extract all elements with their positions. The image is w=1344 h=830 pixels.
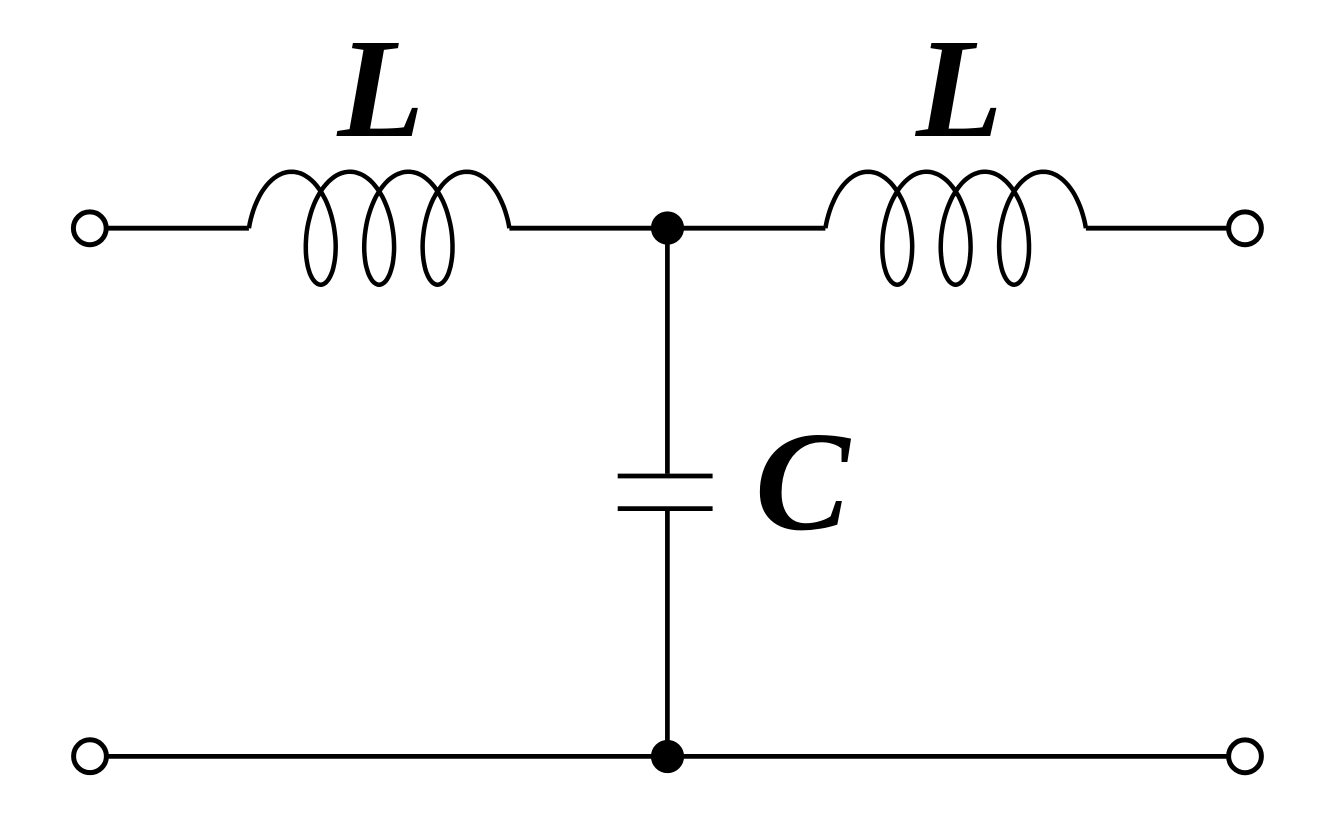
- wire (top-right horizontal): [1086, 226, 1227, 231]
- node junction dot (top): [651, 211, 684, 244]
- capacitor C bottom plate: [618, 506, 713, 511]
- wire (top middle, coil1 to node): [509, 226, 668, 231]
- svg-text:L: L: [336, 9, 425, 167]
- node junction dot (bottom): [651, 740, 684, 773]
- terminal (top-right port): [1229, 212, 1262, 245]
- terminal (top-left port): [73, 212, 106, 245]
- wire (top-left horizontal): [108, 226, 249, 231]
- capacitor C top plate: [618, 474, 713, 479]
- terminal (bottom-left port): [74, 740, 107, 773]
- inductor L (right coil): [825, 172, 1086, 285]
- terminal (bottom-right port): [1229, 740, 1262, 773]
- svg-text:C: C: [755, 402, 852, 560]
- svg-text:L: L: [914, 9, 1003, 167]
- inductor L (left coil): [249, 172, 510, 285]
- wire (bottom rail): [108, 754, 1227, 759]
- wire (capacitor bottom lead): [665, 511, 670, 756]
- wire (capacitor top lead): [665, 228, 670, 473]
- wire (top middle, node to coil2): [668, 226, 826, 231]
